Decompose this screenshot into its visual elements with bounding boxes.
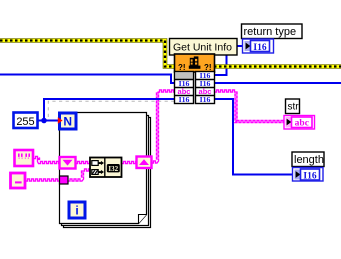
CLN orange header	[175, 54, 215, 72]
svg-text:abc: abc	[295, 118, 309, 128]
wire: long I16 wire entering CLN left row2 from left edge	[0, 75, 176, 84]
CLN terminal grid right column	[196, 72, 215, 104]
svg-text:255: 255	[16, 116, 34, 128]
svg-text:return type: return type	[244, 26, 297, 38]
wire: string wavy from CLN right row3 to str indicator	[215, 90, 285, 123]
svg-text:?!: ?!	[178, 63, 186, 72]
svg-text:abc: abc	[199, 87, 212, 96]
svg-text:Get Unit Info: Get Unit Info	[173, 42, 232, 54]
svg-text:I16: I16	[303, 171, 316, 181]
concat / append string icon node	[90, 158, 122, 178]
error cluster wire: yellow/black dashed, left run, corner down, into node; right run to edge	[0, 41, 341, 67]
label: str	[286, 99, 300, 114]
svg-text:I32: I32	[108, 165, 118, 173]
svg-text:I16: I16	[253, 43, 266, 53]
label: length	[292, 152, 324, 167]
svg-text:N: N	[63, 115, 72, 129]
wire: 255 constant to N terminal	[38, 120, 60, 122]
indicator: str abc	[284, 116, 315, 130]
wire: I16 output of CLN return value to return type indicator	[214, 46, 243, 75]
string constant with dash	[11, 173, 26, 188]
red coercion arrow at N	[58, 117, 63, 123]
wire: string wavy from left shift register to concat icon upper input	[76, 161, 91, 163]
wire: branch from 255 up and right into CLN left row4 (buffer size)	[44, 99, 176, 121]
svg-text:I16: I16	[200, 95, 211, 104]
N count terminal	[60, 113, 77, 129]
indicator: return type I16	[243, 39, 274, 53]
left shift register (down arrow)	[60, 157, 76, 169]
wire: string wavy from empty-quotes constant to left shift register	[34, 156, 61, 163]
svg-text:I16: I16	[179, 95, 190, 104]
svg-text:abc: abc	[178, 87, 191, 96]
svg-text:i: i	[75, 204, 78, 218]
redraw blue 255 branch wire over pink vertical crossing	[150, 98, 176, 100]
wire: string wavy from right shift register up into CLN left row3	[152, 90, 176, 163]
right shift register (up arrow)	[137, 157, 152, 169]
wire: long I16 wire from CLN right row2 to right edge	[214, 82, 341, 84]
label: return type	[242, 24, 303, 39]
svg-text:str: str	[288, 102, 300, 113]
grid cell type labels	[179, 71, 211, 104]
for loop frame: front page with folded corner	[60, 113, 147, 224]
empty string constant (quotes)	[15, 150, 34, 166]
folded corner flap	[139, 215, 147, 224]
CLN terminal grid left column	[175, 72, 194, 104]
library building icon	[189, 56, 201, 68]
wire: string wavy from concat icon output to right shift register	[122, 161, 137, 163]
wire: CLN right row4 length output down to length indicator	[214, 99, 293, 175]
wire: string wavy from tunnel to concat icon lower input	[68, 169, 91, 181]
svg-text:length: length	[294, 154, 324, 166]
junction dot on 255 wire	[41, 118, 47, 124]
indicator: length I16	[293, 168, 324, 182]
for loop frame: back page 2	[64, 118, 151, 228]
Call Library Function Node: label box "Get Unit Info"	[170, 39, 238, 56]
for loop frame: back page 1	[62, 116, 149, 226]
tunnel on loop border (string)	[60, 176, 69, 184]
i iteration terminal	[69, 202, 85, 218]
255 numeric constant	[14, 113, 38, 129]
wire: string wavy from dash constant to tunnel	[26, 179, 61, 181]
ghost routing dashed line along 255 branch wire	[48, 101, 176, 117]
